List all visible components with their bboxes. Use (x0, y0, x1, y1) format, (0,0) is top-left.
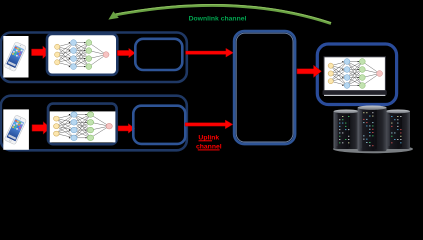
encoder NN photo (bottom row) (50, 111, 116, 142)
red block arrow phone to encoder (top row) (32, 46, 50, 59)
encoder NN diagram (top row) (55, 40, 109, 70)
modulator box (bottom row) (133, 106, 185, 144)
phone photo (bottom row) (3, 109, 29, 149)
green arc arrowhead (108, 11, 118, 19)
device group box (bottom row) (1, 96, 187, 151)
channel box inner bevel (236, 33, 293, 142)
svg-text:channel: channel (196, 143, 222, 150)
red uplink arrow to channel (top row) (186, 48, 234, 57)
monitor screen frame (324, 57, 385, 91)
device group box (top row) (1, 33, 187, 83)
phone (top row) (4, 42, 27, 72)
monitor base line (324, 95, 385, 96)
server tower left (334, 110, 359, 150)
encoder NN box (bottom row) (48, 104, 117, 145)
encoder NN diagram (bottom row) (54, 112, 113, 141)
underline of channel (198, 149, 220, 150)
red block arrow phone to encoder (bottom row) (32, 122, 50, 135)
channel box (center) (234, 31, 295, 144)
svg-text:Uplink: Uplink (198, 134, 219, 141)
red block arrow channel to server (center to right) (297, 65, 322, 77)
phone photo (top row) (3, 36, 28, 78)
green downlink feedback arc highlight (113, 4, 331, 22)
server rack shadow (333, 145, 413, 153)
green downlink feedback arc (113, 5, 331, 23)
server tower middle (358, 106, 387, 152)
red block arrow encoder to modulator (bottom row) (118, 124, 135, 134)
decoder NN diagram on monitor (328, 59, 382, 89)
monitor bottom bar (323, 91, 387, 95)
underline of Uplink (199, 140, 213, 141)
red uplink arrow to channel (bottom row) (185, 120, 233, 129)
red block arrow encoder to modulator (top row) (117, 48, 135, 58)
svg-text:Downlink channel: Downlink channel (189, 16, 247, 23)
encoder NN box (top row) (47, 34, 117, 75)
modulator box (top row) (135, 39, 182, 70)
phone (bottom row) (4, 115, 27, 145)
server tower right (386, 110, 410, 150)
server box (right) (317, 44, 396, 105)
